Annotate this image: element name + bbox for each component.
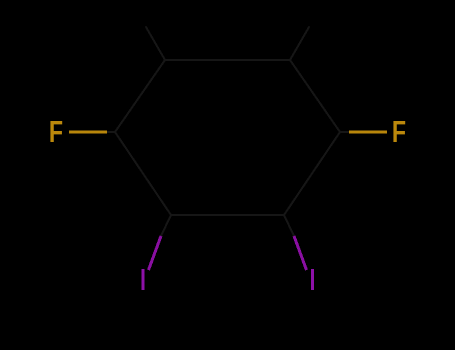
bond C2-I left (purple half): [149, 236, 162, 270]
benzene ring (gray skeleton): [107, 27, 348, 236]
wire: ring edge top C6-C5: [165, 59, 290, 61]
wire: ring edge lower-left C2-C1: [115, 132, 171, 215]
wire: methyl stub on C6 (up-left): [146, 27, 165, 60]
atom label F right: [392, 114, 406, 149]
wire: ring edge lower-right C4-C3: [284, 132, 340, 215]
wire: gray half of C3-I bond: [284, 215, 294, 236]
wire: gray half of C2-I bond: [161, 215, 171, 236]
bond C4-F right (orange half): [349, 130, 387, 133]
svg-text:F: F: [392, 114, 406, 149]
wire: methyl stub on C5 (up-right): [290, 27, 309, 60]
wire: gray half of C1-F bond: [107, 131, 115, 133]
atom label F left: [49, 114, 63, 149]
svg-text:F: F: [49, 114, 63, 149]
wire: ring edge bottom C3-C2: [171, 214, 284, 216]
wire: ring edge upper-left C1-C6: [115, 60, 165, 132]
atom label I right (plain bar glyph): [311, 269, 314, 290]
bond C3-I right (purple half): [294, 236, 307, 270]
wire: ring edge upper-right C5-C4: [290, 60, 340, 132]
bond C1-F left (orange half): [69, 130, 107, 133]
atom label I left (plain bar glyph): [142, 269, 145, 290]
wire: gray half of C4-F bond: [340, 131, 348, 133]
